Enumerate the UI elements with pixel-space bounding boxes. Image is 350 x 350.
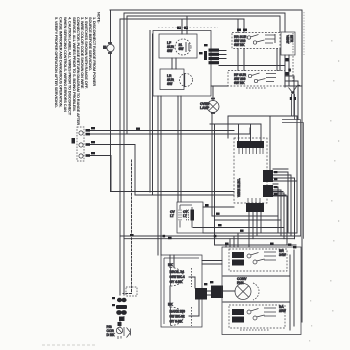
wire vert x135 <box>134 145 136 196</box>
svg-text:SW: SW <box>167 49 173 53</box>
vent box <box>281 12 304 83</box>
power supply cord PS <box>107 316 131 339</box>
svg-text:W/RE ELEC.: W/RE ELEC. <box>237 178 241 197</box>
svg-text:SW: SW <box>167 82 173 86</box>
svg-text:GY 4-BK: GY 4-BK <box>170 280 184 284</box>
junction dots on bus <box>163 235 217 238</box>
wire bottom bus y237 <box>120 235 301 237</box>
switch unit SW4 <box>228 71 285 89</box>
note text block <box>54 12 102 125</box>
wire ERC fan block1 <box>273 169 297 239</box>
scan noise right margin <box>309 40 339 342</box>
svg-text:00W BK-4: 00W BK-4 <box>170 275 185 279</box>
wire mid bus y191 <box>111 191 284 193</box>
svg-text:BROIL 34: BROIL 34 <box>170 270 185 274</box>
connector J2 <box>204 49 219 65</box>
wire lamp drops <box>212 86 215 245</box>
svg-text:0W BK: 0W BK <box>234 81 245 85</box>
wire ERC right riser <box>269 116 271 170</box>
wire oven feeds <box>226 233 238 247</box>
power cord beads <box>116 298 127 326</box>
svg-text:BK: BK <box>168 303 173 307</box>
wire left oven links <box>170 255 222 316</box>
wire block links <box>207 291 235 295</box>
svg-text:34W: 34W <box>279 253 287 257</box>
wire switch col x277 x280 <box>277 49 280 71</box>
svg-text:0W BK: 0W BK <box>234 43 245 47</box>
convection fan M1 <box>235 277 259 300</box>
svg-text:5. VERIFY PROPER OPERATION AFT: 5. VERIFY PROPER OPERATION AFTER SERVICI… <box>54 17 59 108</box>
surface unit SU1 <box>159 34 197 58</box>
wire box4 exits <box>285 76 302 120</box>
wire box3 to box4 columns <box>238 49 244 71</box>
wire lights out y207 <box>203 206 234 208</box>
wire surface feeds <box>172 16 187 69</box>
connector P1 inline circle <box>103 43 114 53</box>
wire L2 top bus <box>124 13 285 295</box>
wire vent drops <box>285 55 289 87</box>
surface section container <box>153 31 211 97</box>
wire top bus 4 <box>120 19 244 295</box>
right oven box <box>222 247 301 335</box>
wire vert x150 pair <box>150 31 153 196</box>
wire ERC top bus y124 <box>210 123 261 125</box>
terminal block TB1 <box>72 127 91 161</box>
wire ERC fan block2 <box>273 184 287 245</box>
svg-text:FAN: FAN <box>237 281 244 285</box>
wire bottom bus y233 <box>203 232 297 234</box>
faint dashed artifact top <box>158 27 218 29</box>
scan noise bottom dashes <box>42 344 95 346</box>
svg-text:GY 6-BK: GY 6-BK <box>170 320 184 324</box>
surface unit SU2 <box>160 69 193 90</box>
ERC control U1 <box>234 138 273 212</box>
wire T2 <box>88 144 135 146</box>
svg-text:MTR: MTR <box>290 35 294 43</box>
broil unit EL3 <box>229 249 287 271</box>
connector block B <box>211 286 223 299</box>
wire J2 out y65 <box>219 65 285 67</box>
bake unit EL4 <box>229 305 287 330</box>
wire T1 pair <box>88 128 250 134</box>
lights box K1 <box>170 202 203 233</box>
wire ERC top feeds <box>239 124 262 141</box>
wire bottom bus y245 <box>215 244 297 246</box>
svg-text:BK: BK <box>168 263 173 267</box>
svg-text:0W BK-62: 0W BK-62 <box>170 315 185 319</box>
power cord dashed box <box>126 287 137 296</box>
connector block A <box>195 288 207 300</box>
wire right oven interior <box>223 250 294 330</box>
bake element EL2 <box>168 303 192 327</box>
switch unit SW3 <box>232 33 280 49</box>
wire ERC top bus y116 <box>228 116 297 233</box>
wire bottom bus y241 <box>124 238 295 240</box>
svg-text:VENT: VENT <box>286 35 290 45</box>
left oven box <box>161 255 202 327</box>
svg-text:BAKE 250: BAKE 250 <box>170 310 186 314</box>
oven lamp LT1 <box>200 99 219 114</box>
wire labels and tick marks <box>91 27 296 307</box>
wire ERC bottom drops <box>249 212 261 247</box>
svg-text:D BK: D BK <box>107 333 116 337</box>
wire lights steps <box>193 216 284 228</box>
svg-text:LAMP: LAMP <box>200 106 210 110</box>
wire y86 link <box>211 85 228 87</box>
wire mid bus y195 <box>135 194 286 196</box>
wire T3 <box>88 156 111 192</box>
wire y119 link <box>282 120 304 239</box>
wire L1 top bus <box>110 10 302 322</box>
wire vert x178 x181 lights feed <box>178 96 181 202</box>
wire vert x158 x161 <box>158 96 161 255</box>
wire ground dashed <box>123 160 132 294</box>
wire J2 stubs <box>219 51 226 59</box>
wire N top bus <box>127 16 280 134</box>
splice node S1 <box>289 85 301 119</box>
svg-text:25W: 25W <box>279 309 287 313</box>
broil element EL1 <box>168 263 192 287</box>
